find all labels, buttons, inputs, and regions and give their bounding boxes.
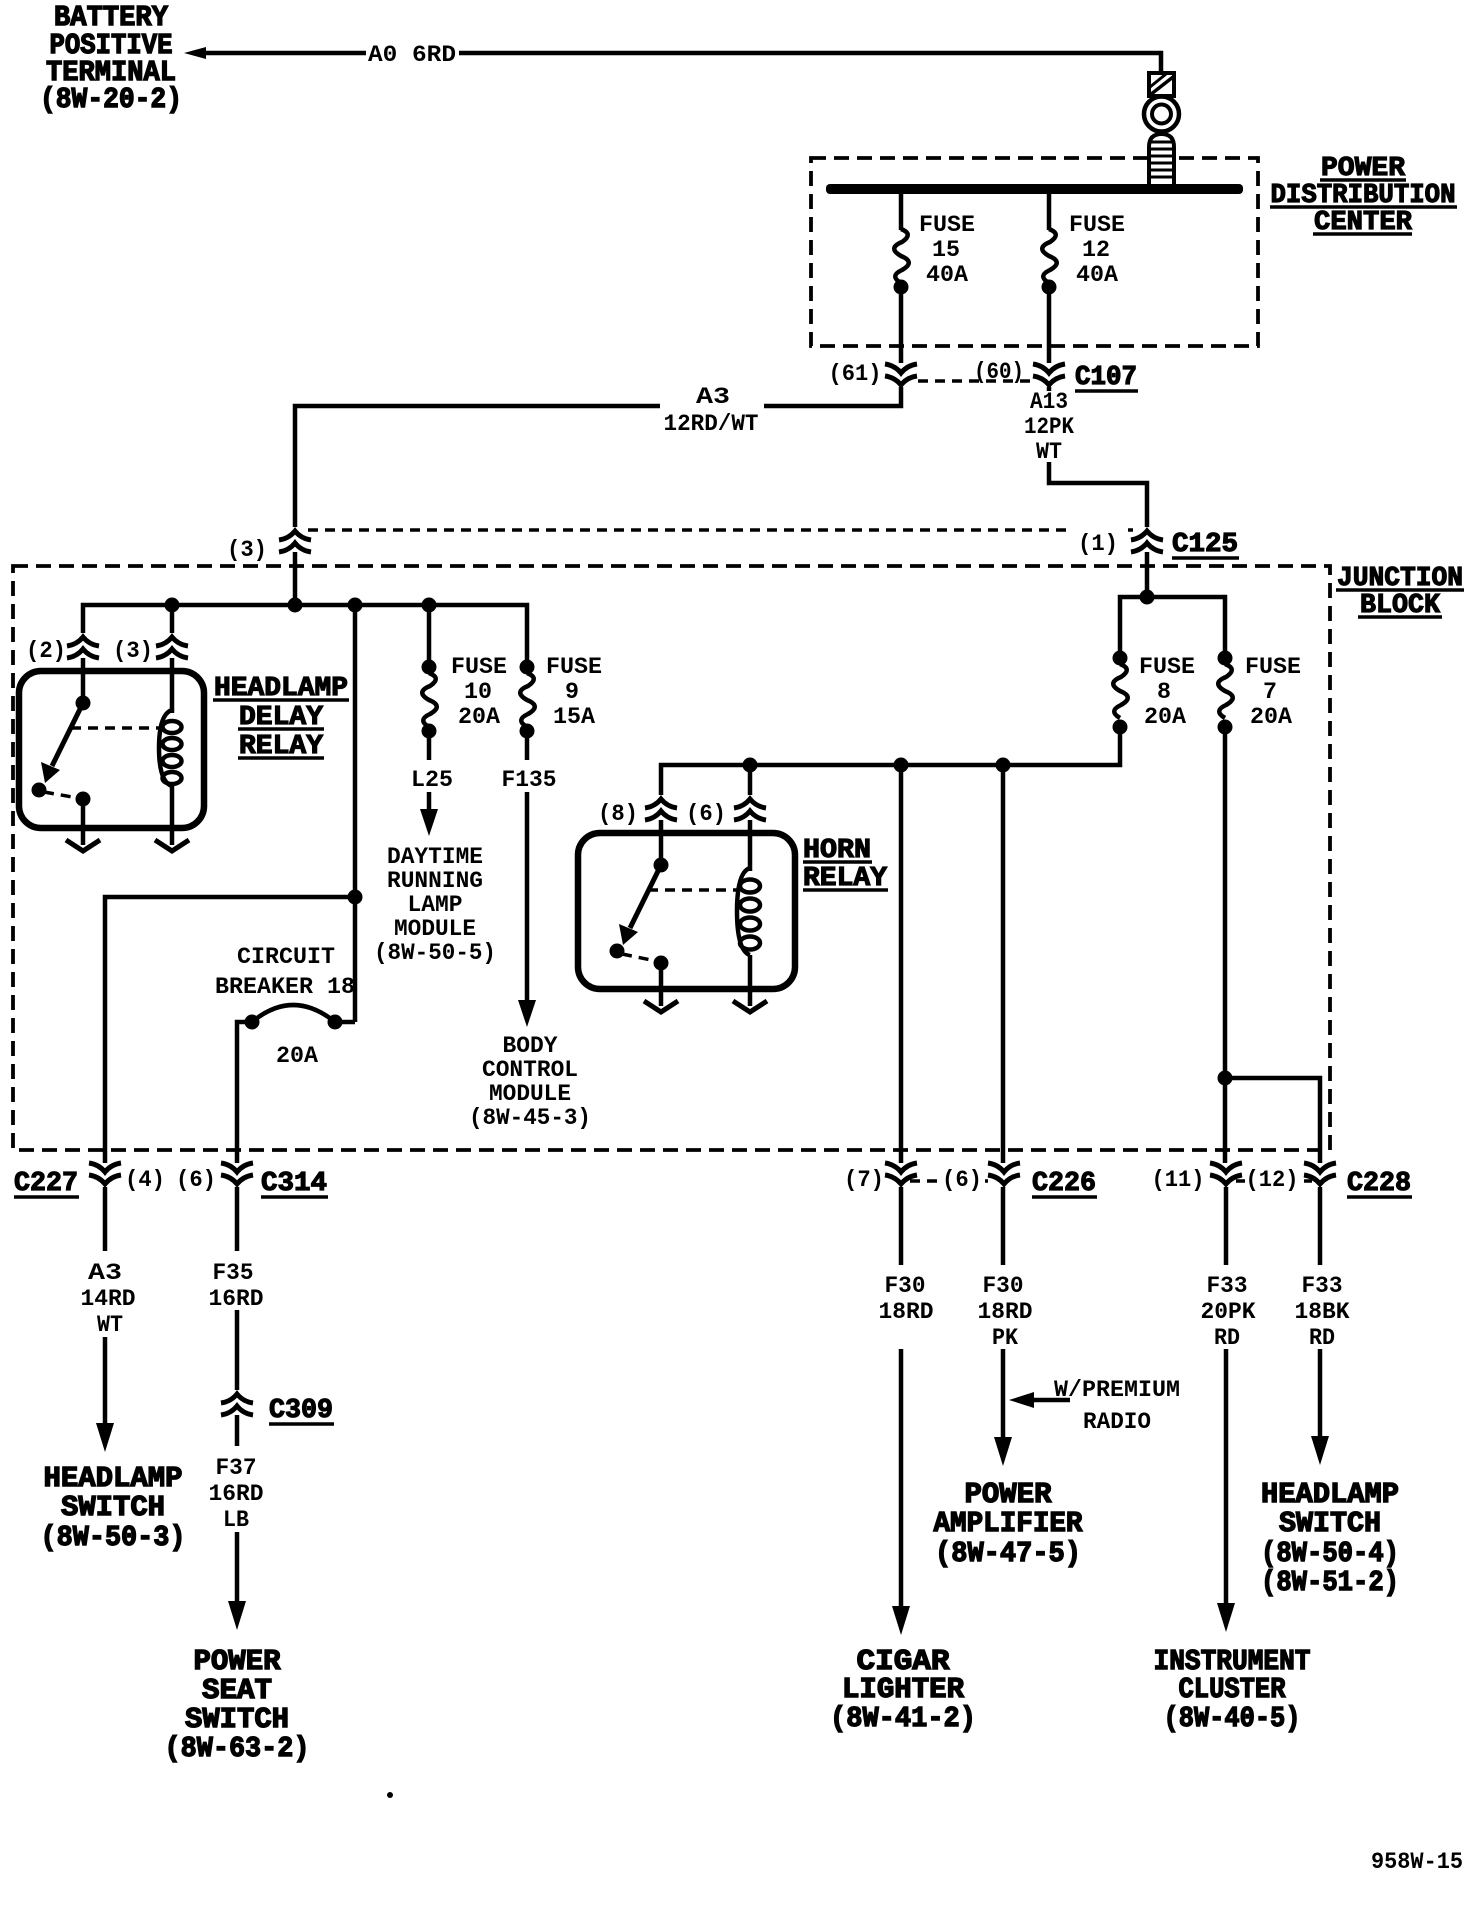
node POWER SEAT SWITCH (8W-63-2) label <box>165 1645 310 1765</box>
relay switch arm <box>52 703 83 766</box>
wire drop to cigar lighter <box>899 765 904 1163</box>
relay switch pin wire <box>81 658 86 700</box>
connector C107 pin 61 <box>885 364 917 385</box>
horn relay contact dot <box>610 944 625 959</box>
horn relay coil <box>737 868 760 955</box>
w/premium radio callout arrow <box>1009 1392 1034 1408</box>
svg-text:15A: 15A <box>553 704 595 730</box>
svg-text:F33: F33 <box>1207 1273 1248 1299</box>
svg-text:MODULE: MODULE <box>489 1081 571 1107</box>
bolt terminal: slotted head <box>1149 73 1174 96</box>
svg-text:BREAKER 18: BREAKER 18 <box>215 974 355 1000</box>
svg-text:12PK: 12PK <box>1024 414 1074 440</box>
wire F33 18BK RD to headlamp switch <box>1318 1187 1323 1265</box>
svg-text:PK: PK <box>992 1325 1018 1351</box>
svg-text:(6): (6) <box>686 801 726 827</box>
svg-text:FUSE: FUSE <box>919 212 975 238</box>
svg-text:C227: C227 <box>14 1169 78 1199</box>
label F30 18RD <box>879 1273 934 1325</box>
horn relay contact dashed link <box>622 954 656 961</box>
svg-text:18RD: 18RD <box>978 1299 1033 1325</box>
horn relay coil output wire <box>748 955 753 1006</box>
junction node dots on feed bus <box>165 598 180 613</box>
relay HORN RELAY box <box>578 833 795 989</box>
svg-text:SWITCH: SWITCH <box>1279 1507 1381 1540</box>
connector C226 pin 6 <box>988 1163 1020 1184</box>
svg-text:A3: A3 <box>696 384 730 410</box>
arrow to cigar lighter <box>899 1349 904 1609</box>
svg-text:16RD: 16RD <box>209 1481 264 1507</box>
svg-text:9: 9 <box>565 679 579 705</box>
svg-text:(12): (12) <box>1246 1167 1299 1193</box>
label F33 20PK RD <box>1201 1273 1256 1351</box>
wire drop to fuse 10 <box>427 605 432 660</box>
connector C309 <box>221 1394 253 1415</box>
connector C228 pin 11 <box>1210 1163 1242 1184</box>
svg-text:10: 10 <box>464 679 492 705</box>
svg-text:(8W-50-3): (8W-50-3) <box>41 1521 186 1554</box>
node HEADLAMP SWITCH (8W-50-3) label <box>41 1462 186 1554</box>
junction dots on horn header <box>743 758 758 773</box>
svg-text:C309: C309 <box>269 1396 333 1426</box>
relay output pin wire <box>81 799 86 845</box>
node BATTERY POSITIVE TERMINAL label <box>40 1 182 116</box>
svg-text:(8W-40-5): (8W-40-5) <box>1164 1702 1301 1735</box>
svg-text:16RD: 16RD <box>209 1286 264 1312</box>
connector C125 pin 3 <box>279 531 311 552</box>
wire fuse 7 output <box>1223 734 1228 1163</box>
svg-text:(60): (60) <box>974 359 1024 385</box>
fuse 8 <box>1113 651 1128 735</box>
arrow to power amplifier <box>1001 1349 1006 1440</box>
label FUSE 9 15A <box>546 654 602 730</box>
horn relay switch pin wire <box>659 820 664 862</box>
label FUSE 7 20A <box>1245 654 1301 730</box>
svg-text:RD: RD <box>1309 1325 1335 1351</box>
relay pin connector (2) <box>67 637 99 658</box>
svg-text:(6): (6) <box>176 1167 216 1193</box>
svg-text:(3): (3) <box>113 638 153 664</box>
svg-text:18BK: 18BK <box>1295 1299 1350 1325</box>
svg-text:CONTROL: CONTROL <box>482 1057 578 1083</box>
node POWER AMPLIFIER (8W-47-5) label <box>934 1478 1084 1570</box>
wire headlamp switch feed <box>105 897 355 1163</box>
svg-text:20A: 20A <box>458 704 500 730</box>
horn relay output dot <box>654 956 669 971</box>
relay contact dashed link <box>44 792 78 798</box>
relay output arrow <box>66 840 100 851</box>
horn relay switch arm <box>630 865 661 928</box>
svg-text:C228: C228 <box>1347 1169 1411 1199</box>
POWER DISTRIBUTION CENTER dashed box <box>811 158 1258 346</box>
relay coil pin wire <box>170 658 175 713</box>
connector C226 pin 7 <box>885 1163 917 1184</box>
label A13 12PK WT <box>1024 389 1074 465</box>
svg-text:15: 15 <box>932 237 960 263</box>
arrow to headlamp switch <box>103 1337 108 1426</box>
fuse 15 <box>894 194 909 363</box>
svg-text:C125: C125 <box>1172 530 1238 560</box>
fuse 12 <box>1042 194 1057 363</box>
relay coil output arrow <box>155 840 189 851</box>
svg-text:SWITCH: SWITCH <box>61 1491 165 1524</box>
svg-text:(1): (1) <box>1078 531 1118 557</box>
horn relay coil output arrow <box>733 1001 767 1012</box>
svg-text:8: 8 <box>1157 679 1171 705</box>
svg-text:12RD/WT: 12RD/WT <box>664 411 759 437</box>
connector C314 <box>221 1163 253 1184</box>
wire drop to horn relay coil pin 6 <box>748 765 753 795</box>
svg-text:FUSE: FUSE <box>1245 654 1301 680</box>
svg-text:(7): (7) <box>844 1167 884 1193</box>
svg-text:(8W-45-3): (8W-45-3) <box>469 1105 591 1131</box>
svg-text:MODULE: MODULE <box>394 916 476 942</box>
svg-text:(2): (2) <box>26 638 66 664</box>
arrow to instrument cluster <box>1224 1349 1229 1606</box>
JUNCTION BLOCK label <box>1336 564 1464 621</box>
connector C228 dashed link <box>1236 1179 1312 1183</box>
svg-text:(61): (61) <box>829 361 882 387</box>
svg-text:958W-15: 958W-15 <box>1371 1849 1463 1875</box>
horn relay output arrow <box>644 1001 678 1012</box>
node CIGAR LIGHTER (8W-41-2) label <box>830 1645 976 1735</box>
svg-text:(8W-41-2): (8W-41-2) <box>830 1702 976 1735</box>
wire to C309 <box>235 1310 240 1390</box>
node DAYTIME RUNNING LAMP MODULE label <box>374 844 496 966</box>
wire to body control module <box>525 792 530 1002</box>
svg-text:40A: 40A <box>1076 262 1118 288</box>
relay HEADLAMP DELAY RELAY box <box>19 671 204 828</box>
svg-text:FUSE: FUSE <box>451 654 507 680</box>
bolt terminal: ring eyelet <box>1144 97 1179 132</box>
horn relay coil pin wire <box>748 820 753 871</box>
svg-text:C314: C314 <box>261 1169 327 1199</box>
svg-text:F35: F35 <box>213 1260 254 1286</box>
connector C226 dashed link <box>910 1179 995 1183</box>
circuit breaker CB18 <box>237 1005 355 1163</box>
connector C227 <box>89 1163 121 1184</box>
fuse 10 <box>422 660 437 761</box>
wire fuse 8 output / horn header <box>661 734 1120 795</box>
svg-text:A13: A13 <box>1030 389 1068 415</box>
label F37 16RD LB <box>209 1455 264 1533</box>
relay coil <box>159 710 182 786</box>
connector C125 pin 1 <box>1131 531 1163 552</box>
label (12) <box>1245 1162 1301 1188</box>
relay switch arm arrowhead <box>41 762 60 783</box>
svg-text:(4): (4) <box>125 1167 165 1193</box>
svg-text:F37: F37 <box>216 1455 257 1481</box>
label A3 14RD WT <box>81 1260 136 1338</box>
wire C125 output to fuse header <box>1145 552 1150 597</box>
svg-text:(6): (6) <box>942 1167 982 1193</box>
svg-text:12: 12 <box>1082 237 1110 263</box>
node INSTRUMENT CLUSTER (8W-40-5) label <box>1154 1645 1311 1735</box>
fuse 7 <box>1218 651 1233 735</box>
svg-text:20A: 20A <box>1144 704 1186 730</box>
svg-text:FUSE: FUSE <box>1069 212 1125 238</box>
svg-text:(8W-20-2): (8W-20-2) <box>40 83 182 116</box>
svg-text:(11): (11) <box>1152 1167 1205 1193</box>
wire drop to relay pin 3 <box>170 605 175 633</box>
svg-text:(8W-47-5): (8W-47-5) <box>935 1537 1081 1570</box>
svg-text:DAYTIME: DAYTIME <box>387 844 483 870</box>
svg-text:FUSE: FUSE <box>1139 654 1195 680</box>
wire F35 16RD <box>235 1187 240 1251</box>
svg-text:RD: RD <box>1214 1325 1240 1351</box>
stray period mark <box>387 1792 393 1798</box>
svg-text:FUSE: FUSE <box>546 654 602 680</box>
bus bar <box>826 184 1243 194</box>
svg-text:A0 6RD: A0 6RD <box>368 42 456 68</box>
wire drop to circuit breaker branch <box>353 605 358 1022</box>
svg-text:14RD: 14RD <box>81 1286 136 1312</box>
fuse 9 <box>520 660 535 761</box>
svg-text:CIRCUIT: CIRCUIT <box>237 944 335 970</box>
label F30 18RD PK <box>978 1273 1033 1351</box>
relay coil output wire <box>170 783 175 845</box>
wire F30 18RD PK to power amplifier <box>1001 1187 1006 1265</box>
label HEADLAMP DELAY RELAY <box>213 674 349 762</box>
connector C228 pin 12 <box>1304 1163 1336 1184</box>
wire arrow to DRL module <box>427 792 432 812</box>
arrow to power seat switch <box>235 1532 240 1604</box>
svg-text:20A: 20A <box>1250 704 1292 730</box>
svg-text:40A: 40A <box>926 262 968 288</box>
label HORN RELAY <box>803 836 888 894</box>
svg-text:(8W-51-2): (8W-51-2) <box>1261 1566 1399 1599</box>
horn relay pin connector (6) <box>734 799 766 820</box>
wire A3 12RD/WT <box>764 387 901 406</box>
svg-text:F135: F135 <box>502 767 557 793</box>
relay pin connector (3) <box>156 637 188 658</box>
label FUSE 12 40A <box>1069 212 1125 288</box>
svg-text:F30: F30 <box>885 1273 926 1299</box>
wire junction block feed bus <box>293 552 298 605</box>
junction dot branch to C228 pin 12 <box>1218 1071 1233 1086</box>
horn relay mechanical dashed link <box>648 888 740 892</box>
relay mechanical dashed link <box>71 726 160 730</box>
svg-text:RADIO: RADIO <box>1083 1409 1151 1435</box>
relay output dot <box>76 792 91 807</box>
relay switch common dot <box>76 696 91 711</box>
node BODY CONTROL MODULE label <box>469 1033 591 1131</box>
svg-text:L25: L25 <box>411 767 453 793</box>
wire fuse 8/7 header <box>1120 597 1225 660</box>
horn relay switch arm arrowhead <box>619 924 638 945</box>
svg-text:A3: A3 <box>88 1260 122 1286</box>
connector C107 pin 60 <box>1033 364 1065 385</box>
label FUSE 8 20A <box>1139 654 1195 730</box>
svg-text:18RD: 18RD <box>879 1299 934 1325</box>
svg-text:20A: 20A <box>276 1043 318 1069</box>
wire branch to pin 12 <box>1225 1078 1320 1163</box>
svg-text:(8W-63-2): (8W-63-2) <box>165 1732 310 1765</box>
wire A13 12PK WT <box>1047 387 1052 391</box>
svg-text:WT: WT <box>97 1312 123 1338</box>
horn relay output pin wire <box>659 963 664 1006</box>
svg-text:F33: F33 <box>1302 1273 1343 1299</box>
svg-text:C107: C107 <box>1075 363 1137 393</box>
wire F37 16RD LB <box>235 1415 240 1446</box>
svg-text:F30: F30 <box>983 1273 1024 1299</box>
svg-text:BODY: BODY <box>503 1033 558 1059</box>
svg-text:LB: LB <box>223 1507 249 1533</box>
label FUSE 10 20A <box>451 654 507 730</box>
label (6) <box>943 1162 985 1188</box>
horn relay switch common dot <box>654 858 669 873</box>
arrow to headlamp switch 2 <box>1318 1349 1323 1439</box>
wire A0 6RD horizontal <box>205 51 366 56</box>
bolt terminal: threaded stud <box>1149 134 1174 185</box>
svg-text:C226: C226 <box>1032 1169 1096 1199</box>
svg-text:AMPLIFIER: AMPLIFIER <box>934 1507 1084 1540</box>
connector C125 dashed link <box>308 528 1133 532</box>
svg-text:(3): (3) <box>227 537 267 563</box>
svg-text:(8W-50-5): (8W-50-5) <box>374 940 496 966</box>
svg-text:RUNNING: RUNNING <box>387 868 483 894</box>
junction dot <box>348 890 363 905</box>
svg-text:W/PREMIUM: W/PREMIUM <box>1054 1377 1180 1403</box>
svg-text:WT: WT <box>1036 439 1062 465</box>
svg-text:20PK: 20PK <box>1201 1299 1256 1325</box>
label FUSE 15 40A <box>919 212 975 288</box>
wire drop to power amplifier <box>1001 765 1006 1163</box>
JUNCTION BLOCK dashed box <box>13 566 1330 1150</box>
POWER DISTRIBUTION CENTER label <box>1270 154 1457 238</box>
svg-text:7: 7 <box>1263 679 1277 705</box>
node HEADLAMP SWITCH (8W-50-4)(8W-51-2) label <box>1261 1478 1399 1599</box>
wire F33 20PK RD to instrument cluster <box>1224 1187 1229 1265</box>
horn relay pin connector (8) <box>645 799 677 820</box>
wire A3 14RD WT to headlamp switch <box>103 1187 108 1251</box>
label F33 18BK RD <box>1295 1273 1350 1351</box>
label F35 16RD <box>209 1260 264 1312</box>
arrowhead to battery terminal <box>184 47 206 59</box>
relay contact dot <box>32 783 47 798</box>
svg-text:LAMP: LAMP <box>408 892 463 918</box>
wire F30 18RD to cigar lighter <box>899 1187 904 1265</box>
connector C107 dashed link <box>918 379 1032 383</box>
svg-text:(8): (8) <box>598 801 638 827</box>
